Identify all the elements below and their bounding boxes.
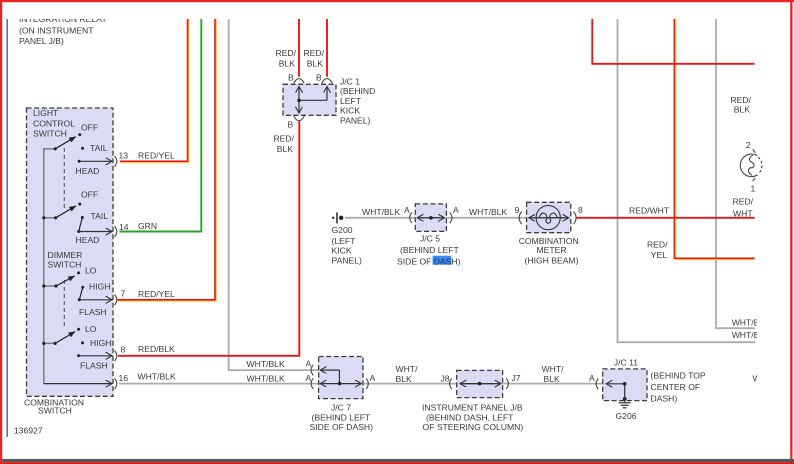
svg-text:(BEHIND TOP: (BEHIND TOP (651, 371, 706, 381)
svg-text:RED/YEL: RED/YEL (138, 151, 175, 161)
svg-text:WHT/BLK: WHT/BLK (362, 207, 400, 217)
svg-text:A: A (404, 205, 410, 215)
svg-text:WHT/BLK: WHT/BLK (247, 373, 285, 383)
svg-text:(LEFT: (LEFT (332, 236, 357, 246)
svg-text:OF STEERING COLUMN): OF STEERING COLUMN) (423, 422, 524, 432)
svg-text:(BEHIND LEFT: (BEHIND LEFT (400, 245, 459, 255)
svg-text:J/C 7: J/C 7 (331, 403, 351, 413)
svg-text:HEAD: HEAD (76, 235, 100, 245)
svg-text:(BEHIND: (BEHIND (340, 86, 375, 96)
svg-text:WHT/BLK: WHT/BLK (138, 372, 176, 382)
svg-text:BLK: BLK (544, 374, 561, 384)
svg-text:RED/: RED/ (730, 95, 751, 105)
svg-text:CENTER OF: CENTER OF (651, 382, 701, 392)
svg-text:METER: METER (537, 245, 567, 255)
svg-text:PANEL): PANEL) (340, 116, 371, 126)
svg-text:WHT/BLK: WHT/BLK (469, 207, 507, 217)
svg-text:A: A (306, 359, 312, 369)
svg-text:DASH): DASH) (651, 394, 678, 404)
svg-text:SIDE OF DASH): SIDE OF DASH) (310, 422, 374, 432)
svg-text:HIGH: HIGH (90, 338, 111, 348)
svg-text:7: 7 (121, 289, 126, 299)
svg-text:RED/: RED/ (733, 197, 754, 207)
svg-text:14: 14 (119, 222, 129, 232)
svg-text:WHT/: WHT/ (542, 364, 565, 374)
svg-text:J7: J7 (512, 373, 521, 383)
svg-text:16: 16 (119, 373, 129, 383)
svg-text:RED/: RED/ (275, 48, 296, 58)
svg-text:OFF: OFF (81, 123, 98, 133)
svg-text:BLK: BLK (307, 58, 324, 68)
svg-text:G200: G200 (332, 225, 353, 235)
svg-text:13: 13 (119, 150, 129, 160)
svg-text:WHT/B: WHT/B (732, 330, 760, 340)
svg-text:J8: J8 (441, 374, 450, 384)
svg-text:136927: 136927 (14, 426, 43, 436)
svg-text:BLK: BLK (734, 105, 751, 115)
svg-text:TAIL: TAIL (91, 211, 109, 221)
svg-text:(HIGH BEAM): (HIGH BEAM) (525, 255, 579, 265)
svg-text:8: 8 (121, 344, 126, 354)
svg-text:SWITCH: SWITCH (38, 406, 72, 416)
svg-text:8: 8 (578, 205, 583, 215)
svg-text:RED/: RED/ (273, 134, 294, 144)
svg-text:G206: G206 (616, 411, 637, 421)
svg-text:LO: LO (85, 324, 97, 334)
svg-text:(BEHIND DASH, LEFT: (BEHIND DASH, LEFT (426, 412, 514, 422)
svg-text:OFF: OFF (81, 190, 98, 200)
svg-text:J/C 11: J/C 11 (614, 358, 638, 368)
svg-text:HIGH: HIGH (89, 281, 110, 291)
svg-text:BLK: BLK (279, 58, 296, 68)
svg-text:RED/: RED/ (647, 240, 668, 250)
svg-text:A: A (370, 373, 376, 383)
svg-text:A: A (453, 205, 459, 215)
svg-text:J/C 5: J/C 5 (420, 234, 440, 244)
svg-text:TAIL: TAIL (90, 143, 108, 153)
svg-text:RED/YEL: RED/YEL (138, 289, 175, 299)
svg-text:B: B (288, 72, 294, 82)
svg-text:INSTRUMENT PANEL J/B: INSTRUMENT PANEL J/B (422, 403, 523, 413)
svg-text:1: 1 (751, 184, 756, 194)
svg-text:A: A (306, 373, 312, 383)
svg-text:BLK: BLK (396, 374, 413, 384)
svg-text:FLASH: FLASH (80, 360, 108, 370)
svg-text:HEAD: HEAD (76, 166, 100, 176)
svg-text:SIDE OF DASH): SIDE OF DASH) (397, 257, 461, 267)
svg-text:A: A (589, 373, 595, 383)
svg-text:DIMMER: DIMMER (48, 250, 83, 260)
svg-text:KICK: KICK (332, 246, 352, 256)
svg-text:B: B (288, 120, 294, 130)
svg-text:SWITCH: SWITCH (48, 260, 82, 270)
svg-text:RED/: RED/ (303, 48, 324, 58)
svg-text:9: 9 (515, 205, 520, 215)
svg-text:LO: LO (85, 266, 97, 276)
svg-text:SWITCH: SWITCH (33, 129, 67, 139)
svg-text:LIGHT: LIGHT (33, 108, 59, 118)
svg-text:FLASH: FLASH (79, 307, 107, 317)
svg-text:B: B (316, 72, 322, 82)
svg-text:RED/WHT: RED/WHT (629, 206, 670, 216)
svg-text:CONTROL: CONTROL (33, 118, 75, 128)
svg-text:KICK: KICK (340, 106, 360, 116)
svg-text:LEFT: LEFT (340, 96, 362, 106)
svg-text:WHT/: WHT/ (396, 364, 419, 374)
svg-text:(BEHIND LEFT: (BEHIND LEFT (312, 412, 371, 422)
svg-text:2: 2 (746, 140, 751, 150)
svg-text:WHT/B: WHT/B (732, 318, 760, 328)
svg-text:J/C 1: J/C 1 (340, 77, 360, 87)
svg-text:WHT: WHT (733, 208, 753, 218)
svg-text:BLK: BLK (277, 144, 294, 154)
svg-text:YEL: YEL (651, 250, 667, 260)
svg-text:WHT/BLK: WHT/BLK (247, 359, 285, 369)
svg-text:RED/BLK: RED/BLK (138, 344, 175, 354)
svg-text:(ON INSTRUMENT: (ON INSTRUMENT (19, 26, 94, 36)
svg-text:GRN: GRN (138, 221, 157, 231)
svg-text:PANEL J/B): PANEL J/B) (19, 36, 64, 46)
svg-text:PANEL): PANEL) (332, 256, 363, 266)
